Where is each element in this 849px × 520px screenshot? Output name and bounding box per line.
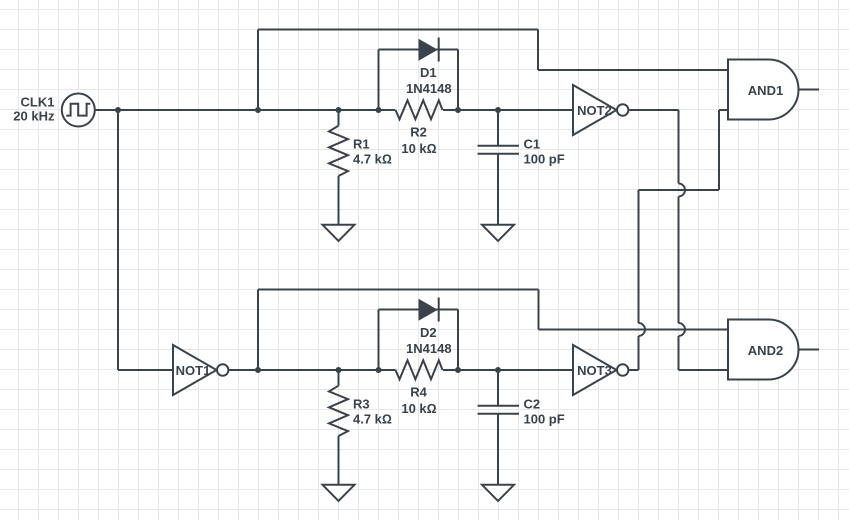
junction node: R4/D2 left	[376, 367, 382, 373]
wire: into AND2 input A	[539, 329, 729, 331]
resistor R4 10 kOhm (horizontal)	[396, 360, 443, 379]
svg-text:R2: R2	[410, 125, 427, 140]
wire: bottom bypass horizontal	[258, 289, 539, 291]
svg-text:20 kHz: 20 kHz	[13, 108, 55, 123]
junction node: C2 top	[495, 367, 501, 373]
diode D2 branch left riser	[378, 310, 380, 371]
label R3 4.7 kOhm	[353, 396, 392, 426]
diode D2 branch right riser	[457, 310, 459, 371]
svg-text:10 kΩ: 10 kΩ	[401, 141, 436, 156]
voltage source CLK1 (square-wave clock)	[62, 94, 95, 127]
svg-text:CLK1: CLK1	[21, 94, 55, 109]
diode D1 1N4148 (anode left, cathode right)	[419, 38, 439, 62]
wire: NOT2 output going right	[629, 109, 678, 111]
wire: top bypass step down	[537, 30, 539, 71]
AND gate AND1	[728, 60, 799, 120]
label D2 1N4148	[406, 325, 452, 356]
wire: node up to bottom bypass	[257, 290, 259, 371]
resistor R3 4.7 kOhm (vertical)	[329, 370, 348, 485]
svg-text:D2: D2	[420, 325, 437, 340]
diode D2 branch top wire	[379, 309, 459, 311]
wire: AND2 output stub	[799, 349, 820, 351]
diode D1 branch left riser	[378, 50, 380, 111]
wire: top bypass horizontal	[258, 29, 538, 31]
junction node: R2/D1 right	[455, 107, 461, 113]
svg-text:NOT1: NOT1	[176, 363, 211, 378]
svg-text:4.7 kΩ: 4.7 kΩ	[353, 151, 392, 166]
wire: NOT1 output to bottom rail (left part)	[229, 369, 395, 371]
wire: NOT1 input	[118, 369, 173, 371]
junction node: R1 top	[336, 107, 342, 113]
capacitor C2 100 pF	[478, 370, 520, 485]
inverter NOT3	[573, 345, 628, 395]
svg-text:AND1: AND1	[748, 83, 783, 98]
svg-text:1N4148: 1N4148	[406, 341, 452, 356]
junction node: R3 top	[336, 367, 342, 373]
ground for R1	[323, 225, 355, 241]
label C1 100 pF	[524, 136, 565, 166]
wire: NOT2 output dropping down to AND2 input B, hops over y=190 and y=329.5	[679, 110, 686, 370]
svg-text:R3: R3	[353, 396, 370, 411]
ground for R3	[323, 485, 355, 501]
junction node: R2/D1 left	[376, 107, 382, 113]
junction node: top bypass tap	[255, 107, 261, 113]
junction node: CLK1 out / NOT1 branch	[115, 107, 121, 113]
inverter NOT2	[573, 85, 628, 135]
inverter NOT1	[173, 345, 228, 395]
svg-text:100 pF: 100 pF	[524, 151, 565, 166]
wire: into AND1 input A	[538, 69, 728, 71]
wire: NOT3 output going right	[629, 369, 638, 371]
svg-text:R1: R1	[353, 136, 370, 151]
wire: top rail right part after R2 to NOT2	[443, 109, 573, 111]
wire: NOT3 output rising to y=190, hop over y=329.5	[639, 190, 646, 370]
junction node: R4/D2 right	[455, 367, 461, 373]
wire: CLK1 output to NOT2 input (top rail, left part)	[95, 109, 395, 111]
svg-text:D1: D1	[420, 65, 437, 80]
svg-text:R4: R4	[410, 385, 427, 400]
ground for C1	[482, 225, 514, 241]
svg-text:C1: C1	[524, 136, 541, 151]
svg-text:NOT3: NOT3	[577, 363, 612, 378]
wire: bottom rail right part after R4 to NOT3	[443, 369, 573, 371]
wire: down from node A to NOT1 input	[117, 110, 119, 370]
diode D2 1N4148 (anode left, cathode right)	[419, 298, 439, 322]
junction node: C1 top	[495, 107, 501, 113]
svg-text:4.7 kΩ: 4.7 kΩ	[353, 411, 392, 426]
resistor R1 4.7 kOhm (vertical)	[329, 110, 348, 225]
svg-text:1N4148: 1N4148	[406, 81, 452, 96]
svg-text:AND2: AND2	[748, 343, 783, 358]
wire: bottom bypass step down	[538, 290, 540, 330]
svg-text:100 pF: 100 pF	[524, 411, 565, 426]
resistor R2 10 kOhm (horizontal)	[396, 100, 443, 119]
svg-text:C2: C2	[524, 396, 541, 411]
diode D1 branch top wire	[379, 49, 459, 51]
label R2 10 kOhm	[401, 125, 436, 156]
svg-text:10 kΩ: 10 kΩ	[401, 401, 436, 416]
wire: node B up to top bypass	[257, 30, 259, 111]
label D1 1N4148	[406, 65, 452, 96]
wire: into AND1 input B	[719, 109, 728, 111]
label C2 100 pF	[524, 396, 565, 426]
label R4 10 kOhm	[401, 385, 436, 416]
diode D1 branch right riser	[457, 50, 459, 111]
AND gate AND2	[728, 320, 799, 380]
capacitor C1 100 pF	[478, 110, 520, 225]
label R1 4.7 kOhm	[353, 136, 392, 166]
wire: cross link at y=190	[639, 189, 720, 191]
wire: AND1 output stub	[799, 89, 820, 91]
wire: into AND2 input B	[679, 369, 729, 371]
label CLK1 value 20 kHz	[13, 94, 55, 123]
junction node: NOT1 out / bottom bypass tap	[255, 367, 261, 373]
wire: rise to AND1 input B	[718, 110, 720, 190]
ground for C2	[482, 485, 514, 501]
svg-text:NOT2: NOT2	[577, 103, 612, 118]
